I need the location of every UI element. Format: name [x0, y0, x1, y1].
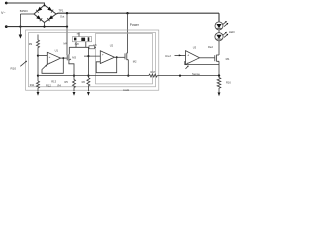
ground arrow R16	[218, 92, 221, 96]
diode D1	[37, 7, 42, 11]
svg-text:M2: M2	[133, 59, 137, 63]
wire M2 source down	[127, 60, 129, 76]
node sense	[218, 74, 220, 76]
wire U2 input rail	[84, 55, 100, 57]
ground arrow R15	[87, 92, 90, 96]
node bridge bottom	[43, 26, 45, 28]
node R9 bottom	[37, 55, 39, 57]
svg-text:R17: R17	[151, 70, 156, 74]
svg-text:U1: U1	[55, 49, 59, 53]
wire box top stub	[78, 33, 80, 37]
wire x88 down to U2 input	[87, 47, 89, 77]
node bottom x180	[179, 75, 181, 77]
svg-text:Out: Out	[60, 15, 64, 19]
node U2 output junction	[116, 56, 118, 58]
wire mirror left leg	[75, 42, 77, 48]
arrow R10	[20, 61, 26, 66]
resistor R14	[73, 76, 76, 92]
svg-text:M1: M1	[226, 57, 230, 61]
op-amp U1	[47, 52, 60, 64]
node rail x67	[66, 12, 68, 14]
resistor R9	[37, 35, 40, 55]
outer module box	[26, 30, 159, 90]
svg-text:R13: R13	[51, 80, 56, 84]
svg-text:3v8: 3v8	[75, 43, 80, 46]
mirror blob Q2	[81, 38, 85, 41]
ground	[19, 34, 22, 36]
svg-text:R5: R5	[65, 80, 69, 84]
svg-text:+: +	[102, 53, 104, 57]
wire U3 minus feedback	[185, 61, 219, 75]
current mirror box	[73, 37, 92, 42]
svg-text:mod1: mod1	[123, 89, 130, 92]
component inline small	[89, 46, 95, 49]
svg-text:R6: R6	[82, 80, 86, 84]
svg-text:-: -	[102, 60, 103, 64]
wire bridge left vertex to AC low	[20, 13, 34, 15]
wire x67 into module	[66, 27, 68, 55]
svg-text:M3: M3	[72, 56, 76, 60]
node source bottom	[73, 75, 75, 77]
resistor R16	[217, 76, 221, 91]
terminal top-left	[5, 2, 8, 5]
diode D3	[36, 15, 41, 19]
svg-text:-: -	[49, 60, 50, 64]
svg-text:R12: R12	[46, 84, 51, 88]
resistor R11	[37, 81, 40, 92]
svg-text:-: -	[187, 60, 188, 64]
wire U1 minus feedback	[42, 58, 63, 73]
wire U2 minus feedback	[96, 57, 117, 72]
terminal lower-left	[5, 25, 8, 28]
svg-text:U3: U3	[193, 46, 197, 50]
ground arrow R11	[37, 91, 39, 94]
node x88 input	[87, 55, 89, 57]
node x88 bottom wire	[87, 75, 89, 77]
wire rail to LED	[218, 13, 220, 22]
svg-text:+: +	[49, 55, 51, 59]
svg-text:U2: U2	[110, 44, 114, 48]
node M2 source bottom	[127, 75, 129, 77]
bridge rectifier BR1	[34, 5, 56, 23]
transistor M2	[124, 53, 126, 59]
wire mirror right leg	[85, 42, 87, 48]
op-amp U2	[100, 51, 114, 64]
inner module box	[29, 33, 156, 87]
svg-text:TP1: TP1	[59, 9, 64, 13]
svg-text:LED: LED	[229, 30, 236, 34]
svg-text:R10: R10	[11, 66, 17, 70]
svg-text:U5: U5	[94, 44, 98, 47]
svg-text:R9: R9	[29, 42, 33, 46]
mirror blob Q1	[74, 38, 76, 41]
wire M3 source down	[69, 61, 74, 76]
wire after component	[95, 46, 97, 48]
wire DC+ rail	[56, 12, 219, 15]
LED1	[215, 22, 223, 30]
svg-text:Sense: Sense	[192, 72, 200, 76]
wire lower AC rail	[6, 26, 67, 28]
wire LED2 to M1 drain	[218, 30, 220, 55]
mirror blob Q3	[88, 37, 90, 41]
transistor M3	[66, 55, 68, 60]
LED2	[215, 33, 223, 41]
node rail x127	[126, 12, 128, 14]
op-amp U3	[186, 51, 200, 65]
wire Uref arrow	[175, 54, 186, 56]
svg-text:R4: R4	[58, 84, 62, 88]
node x38 bottom wire	[37, 75, 39, 77]
svg-text:Red: Red	[208, 45, 213, 49]
node AC low junction	[19, 26, 21, 28]
svg-text:+: +	[187, 54, 189, 58]
resistor R15	[87, 78, 90, 92]
diode D2	[47, 7, 52, 11]
wire U1 output	[61, 57, 67, 59]
node feedback top	[62, 57, 64, 59]
svg-text:Uref: Uref	[165, 54, 171, 58]
node x67 on AC low	[66, 26, 68, 28]
wire U2 output	[115, 56, 125, 58]
arrow trim U3	[186, 66, 189, 69]
wire to op-amp U1 +	[38, 55, 47, 57]
resistor R17 horizontal	[149, 74, 158, 77]
svg-text:B250C: B250C	[20, 9, 28, 13]
svg-text:V~: V~	[1, 11, 6, 15]
svg-text:M4: M4	[64, 43, 68, 46]
diode D4	[48, 15, 53, 19]
wire top rail to bridge	[6, 3, 44, 5]
stage2 box	[96, 34, 153, 84]
ground arrow R14	[73, 92, 76, 96]
wire mirror rail	[69, 46, 89, 48]
wire bridge bottom stub	[44, 23, 46, 27]
svg-text:R16: R16	[226, 80, 231, 84]
arrow trim U1	[45, 65, 47, 67]
wire power feed x127	[127, 13, 129, 53]
wire AC neutral down	[19, 14, 21, 35]
wire M3 drain up	[68, 47, 70, 54]
node bridge top	[44, 4, 46, 6]
wire x38 down	[37, 56, 39, 81]
svg-text:Power: Power	[130, 23, 140, 27]
wire bottom long	[38, 75, 219, 77]
transistor M1	[214, 55, 216, 61]
wire U3 output	[200, 57, 215, 59]
wire vertical feed x67	[66, 13, 68, 26]
svg-text:R11: R11	[30, 83, 35, 87]
